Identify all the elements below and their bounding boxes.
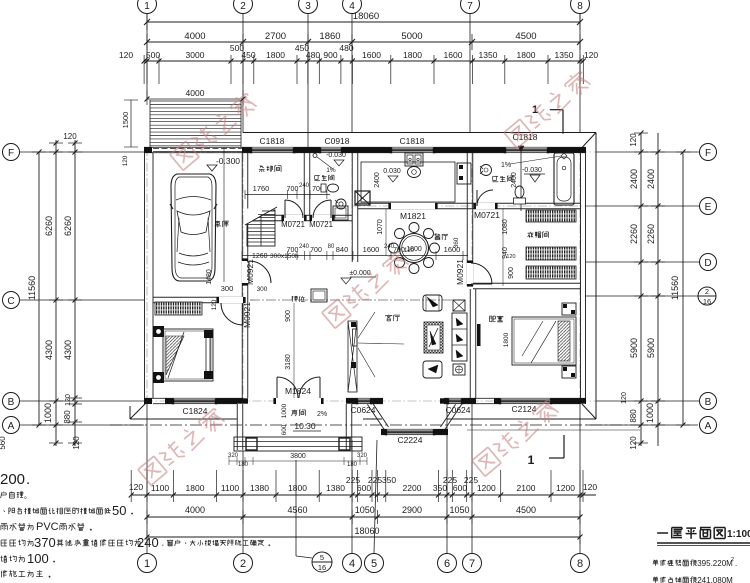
ramp dimension 1500	[130, 100, 132, 147]
svg-text:300x150h: 300x150h	[270, 253, 299, 260]
svg-text:5: 5	[371, 558, 377, 570]
svg-text:2400: 2400	[646, 169, 656, 189]
door opening M1824 entrance	[276, 398, 321, 404]
svg-text:M1821: M1821	[400, 211, 426, 221]
svg-text:120: 120	[129, 482, 143, 492]
cloakroom label	[529, 231, 532, 234]
svg-text:1200: 1200	[477, 483, 496, 493]
bath1 wash basin	[336, 199, 346, 209]
roof overhang top	[243, 132, 596, 134]
svg-text:16: 16	[318, 563, 326, 572]
svg-text:2400: 2400	[629, 169, 639, 189]
svg-text:1600: 1600	[362, 50, 381, 60]
svg-text:2260: 2260	[646, 224, 656, 244]
bottom dimension chain level 1 detailed	[131, 494, 596, 496]
grid line 1 top leader	[146, 14, 148, 100]
svg-text:900: 900	[285, 310, 292, 322]
svg-text:120: 120	[584, 50, 598, 60]
svg-text:100: 100	[27, 551, 49, 566]
grid line 4 top leader	[351, 14, 353, 133]
svg-text:8: 8	[577, 1, 583, 12]
notes line 3	[3, 510, 6, 512]
svg-text:700: 700	[287, 186, 299, 193]
notes line 5	[1, 539, 7, 541]
svg-text:2: 2	[705, 287, 709, 296]
svg-text:360: 360	[453, 237, 460, 248]
grid axis C section line right	[586, 295, 698, 297]
porch column left	[246, 438, 257, 450]
svg-text:5000: 5000	[401, 31, 422, 42]
svg-text:4500: 4500	[516, 505, 536, 515]
porch platform	[234, 437, 362, 451]
bath1 washing machine	[333, 206, 348, 220]
title: first floor plan	[657, 532, 668, 534]
door opening M0721 bath1	[312, 215, 332, 221]
cloakroom dims	[502, 209, 504, 286]
staircase	[247, 210, 275, 246]
roof overhang bottom left segment	[130, 418, 237, 420]
grid axis B line right	[596, 400, 699, 402]
svg-text:1380: 1380	[326, 483, 345, 493]
svg-text:120: 120	[119, 50, 133, 60]
svg-text:8: 8	[577, 558, 583, 570]
door opening M0921 bedroom1	[219, 297, 243, 303]
grid bubble D right	[700, 254, 717, 271]
bathtub	[554, 153, 574, 205]
window C1818 kitchen	[391, 147, 434, 153]
living coffee table	[424, 322, 443, 353]
grid axis C dash-dot through hall	[250, 299, 465, 301]
door opening M0921 hall-cloak	[467, 263, 473, 284]
TV cabinet	[348, 321, 357, 392]
interior wall cloakroom/bedroom2 top	[473, 282, 580, 284]
grid bubbles top (clipped)	[138, 0, 157, 14]
svg-text:M0721: M0721	[474, 210, 500, 220]
svg-text:700: 700	[310, 247, 322, 254]
grid bubble 6 bottom	[438, 554, 457, 573]
svg-text:120: 120	[583, 482, 597, 492]
svg-text:120: 120	[629, 436, 638, 450]
svg-text:120: 120	[629, 133, 638, 147]
exterior wall bottom faces (B) left	[144, 397, 243, 399]
grid bubble C left	[3, 292, 20, 309]
svg-text:180: 180	[238, 462, 249, 468]
exterior wall bottom faces (B) right	[444, 397, 586, 399]
door M0721 storage arc	[285, 200, 303, 218]
svg-text:6: 6	[444, 558, 450, 570]
svg-text:C1818: C1818	[259, 136, 284, 146]
cloakroom wardrobe strip 2	[526, 247, 576, 260]
svg-text:2900: 2900	[402, 505, 422, 515]
left dimension chain level 2	[55, 140, 57, 446]
svg-text:560: 560	[0, 436, 7, 450]
svg-text:1050: 1050	[449, 505, 469, 515]
section line 1 vertical	[520, 145, 522, 211]
svg-text:D: D	[704, 258, 711, 269]
area note 2 (clipped)	[653, 576, 656, 579]
notes line 2	[3, 491, 5, 494]
grid axis F line left	[20, 151, 144, 153]
svg-text:1800: 1800	[288, 483, 307, 493]
door M1824 entrance double arcs	[277, 377, 298, 398]
roof overhang corner bottom-left	[130, 403, 146, 419]
svg-text:240: 240	[384, 244, 395, 250]
svg-text:370: 370	[34, 535, 56, 550]
bath2 wash basin	[481, 165, 492, 176]
svg-text:300: 300	[257, 286, 268, 293]
grid bubble F right	[700, 144, 717, 161]
svg-text:2%: 2%	[317, 411, 327, 418]
living armchair top	[423, 295, 442, 311]
entrance porch side walls	[236, 404, 238, 450]
svg-text:240: 240	[137, 535, 159, 550]
bath1 room label	[315, 175, 320, 177]
corridor dim chain 1760-700-240-700	[245, 194, 330, 196]
grid axis C line left	[20, 299, 144, 301]
svg-text:1%: 1%	[326, 167, 336, 174]
svg-text:320: 320	[357, 453, 368, 459]
cloakroom wardrobe strip 1	[526, 210, 576, 222]
roof overhang bottom right segment	[447, 418, 596, 420]
storage room label	[260, 165, 263, 168]
svg-text:4000: 4000	[186, 88, 205, 98]
bed2 pillow hatch	[558, 321, 570, 361]
dining room label	[435, 233, 437, 235]
window C0624 bedroom2-left	[448, 398, 462, 404]
right dimension chain level 1	[640, 133, 642, 446]
svg-text:5: 5	[320, 553, 324, 562]
area note 1	[653, 559, 656, 562]
svg-text:840: 840	[336, 245, 349, 254]
garage door dimension 4000	[147, 98, 243, 100]
bedroom1 wardrobe	[155, 302, 202, 315]
svg-text:120: 120	[65, 394, 72, 406]
svg-text:-0.030: -0.030	[522, 167, 542, 174]
window C0624 hall-south	[357, 398, 371, 404]
interior wall garage right (axis 2)	[241, 153, 243, 398]
svg-text:C: C	[7, 296, 14, 307]
grid line 7 bottom leader	[471, 404, 473, 553]
svg-text:1800: 1800	[403, 50, 422, 60]
svg-text::395.220M: :395.220M	[695, 559, 733, 568]
svg-text:500: 500	[146, 50, 160, 60]
living room label	[388, 314, 390, 317]
interior wall kitchen-bath2 bottom (E)	[358, 202, 580, 204]
svg-text:240: 240	[299, 244, 310, 250]
hall room label 房间	[293, 409, 295, 412]
shrine altar	[311, 289, 327, 302]
dining table	[400, 234, 429, 263]
dining chairs	[430, 243, 440, 253]
left dimension chain level 3	[74, 140, 76, 446]
grid line 2 top leader	[242, 14, 244, 133]
svg-text:-0.030: -0.030	[326, 152, 346, 159]
exterior wall left faces	[144, 147, 146, 404]
svg-text:2260: 2260	[629, 224, 639, 244]
svg-text:120: 120	[211, 299, 218, 310]
svg-text:320: 320	[228, 453, 239, 459]
svg-text:1200: 1200	[556, 483, 575, 493]
corridor dim chain lower	[242, 255, 468, 257]
living armchair bottom	[423, 361, 442, 378]
svg-text:C0918: C0918	[324, 136, 349, 146]
notes line 6	[1, 556, 3, 562]
svg-text:6260: 6260	[63, 216, 73, 236]
svg-text:M0921: M0921	[455, 259, 465, 285]
svg-text:880: 880	[63, 410, 72, 424]
stair break line	[245, 207, 277, 225]
grid line 5 bottom leader	[374, 440, 377, 553]
bed1 headboard	[204, 330, 213, 338]
svg-text:C2224: C2224	[397, 435, 422, 445]
svg-text:C1824: C1824	[182, 406, 207, 416]
door opening M1821 kitchen-dining	[391, 203, 435, 209]
svg-text:7: 7	[467, 1, 473, 12]
grid axis B line left	[20, 400, 144, 402]
svg-text:1:100: 1:100	[727, 529, 750, 540]
svg-text:1260: 1260	[252, 253, 268, 260]
garage ramp hatch	[149, 100, 151, 147]
bedroom2 bed	[512, 317, 576, 365]
svg-text:1050: 1050	[355, 505, 375, 515]
grid line 1 bottom leader	[146, 404, 148, 553]
door M0921 garage-hall arc	[249, 261, 271, 283]
window C2224 bay	[386, 429, 434, 435]
bay window splay walls	[367, 403, 385, 430]
living side table round	[453, 364, 465, 375]
kitchen fridge	[457, 163, 471, 184]
bottom wall piers (black)	[144, 398, 152, 404]
svg-text:1350: 1350	[479, 50, 498, 60]
svg-text:120: 120	[63, 132, 77, 141]
window C2124 bedroom2	[500, 398, 551, 404]
roof overhang corner top-right	[582, 133, 596, 148]
bedroom1 nightstand bottom	[153, 372, 164, 383]
svg-text:300: 300	[221, 284, 234, 293]
svg-text:1600: 1600	[363, 245, 380, 254]
TV sight lines	[358, 312, 375, 338]
section mark 5/16 bottom	[295, 460, 297, 556]
svg-text:2700: 2700	[265, 31, 286, 42]
svg-text:80: 80	[328, 244, 335, 250]
svg-text:6260: 6260	[44, 216, 54, 236]
svg-text:7: 7	[469, 558, 475, 570]
svg-text:1480: 1480	[206, 269, 213, 285]
roof overhang right	[595, 133, 597, 420]
svg-text:A: A	[705, 421, 712, 432]
grid bubble 4 bottom	[343, 554, 362, 573]
interior wall bedroom2 left	[469, 289, 471, 398]
grid bubble A left	[3, 417, 20, 434]
svg-text:1: 1	[144, 558, 150, 570]
svg-text:5900: 5900	[629, 338, 639, 358]
svg-text:600: 600	[281, 424, 288, 435]
svg-text:4: 4	[349, 1, 355, 12]
svg-text:4300: 4300	[63, 340, 73, 360]
svg-text:5900: 5900	[646, 338, 656, 358]
interior wall kitchen left (axis 4)	[351, 153, 353, 262]
window C1818 bath2	[505, 147, 548, 153]
garage room label	[215, 220, 220, 222]
svg-text:4000: 4000	[184, 31, 205, 42]
grid bubble 7 bottom	[463, 554, 482, 573]
grid line 7 top leader	[469, 14, 471, 133]
porch column right	[339, 438, 350, 450]
interior wall storage/bath divider	[303, 153, 305, 215]
window C1824 bedroom1	[173, 398, 216, 404]
svg-text:1800: 1800	[266, 50, 285, 60]
svg-text:16: 16	[703, 297, 711, 306]
window C0918 bath1	[320, 147, 342, 153]
door M0921 bedroom1 arc	[221, 303, 243, 325]
svg-text:4300: 4300	[44, 340, 54, 360]
window C1818 storage	[251, 147, 294, 153]
bath2 floor drain	[561, 153, 567, 159]
grid axis D line right	[586, 261, 699, 263]
svg-text:1380: 1380	[250, 483, 269, 493]
grid axis A line left	[20, 424, 144, 426]
bedroom1 bed	[163, 329, 213, 381]
roof overhang corner bottom-right	[582, 404, 596, 419]
grid axis F line right	[596, 151, 699, 153]
right dimension chain total 11560	[682, 152, 684, 425]
svg-text:3800: 3800	[290, 453, 306, 460]
apron line bottom right	[467, 429, 640, 431]
svg-text:18060: 18060	[354, 526, 379, 536]
grid bubble 5 bottom	[365, 554, 384, 573]
svg-text:.: .	[26, 471, 30, 488]
car in garage	[170, 174, 217, 281]
bed1 pillows hatch	[166, 336, 184, 375]
notes line 4	[1, 523, 7, 525]
grid axis A dash-dot across plan	[110, 424, 640, 426]
svg-text:2400: 2400	[511, 172, 518, 188]
svg-text:880: 880	[629, 409, 638, 423]
svg-text:C0624: C0624	[445, 405, 470, 415]
svg-text:225: 225	[368, 475, 382, 485]
living side table with X	[453, 300, 465, 311]
svg-text:1100: 1100	[151, 483, 170, 493]
grid axis A line right	[586, 424, 698, 426]
svg-text:200: 200	[0, 471, 25, 488]
interior wall bedroom1 top (C)	[153, 296, 243, 298]
watermark center	[321, 249, 410, 329]
svg-text:2: 2	[240, 558, 246, 570]
svg-text:1000: 1000	[281, 403, 288, 418]
bath2 toilet	[515, 186, 524, 198]
svg-text:1100: 1100	[221, 483, 240, 493]
svg-text:1760: 1760	[253, 184, 270, 193]
door opening M0921 garage-hall	[242, 261, 248, 283]
svg-text:3000: 3000	[186, 50, 205, 60]
grid bubble 2 bottom	[234, 554, 253, 573]
svg-text:240: 240	[299, 183, 310, 189]
grid line 4 bottom leader	[351, 440, 353, 553]
bed2 nightstand top	[562, 303, 576, 315]
section mark 2/16 right	[698, 287, 716, 305]
svg-text:350: 350	[382, 475, 396, 485]
bed2 nightstand bottom	[562, 366, 576, 378]
svg-text:1: 1	[528, 453, 535, 467]
notes line 7	[0, 571, 3, 573]
svg-text:1500: 1500	[121, 112, 130, 129]
top dimension chain level 3 detailed	[144, 60, 584, 62]
svg-text:2: 2	[731, 557, 734, 563]
svg-text:120: 120	[404, 248, 415, 254]
svg-text:1000: 1000	[43, 403, 53, 423]
svg-text:4560: 4560	[287, 505, 307, 515]
svg-text:4000: 4000	[185, 505, 205, 515]
svg-text:C1818: C1818	[399, 136, 424, 146]
svg-text:120: 120	[72, 436, 81, 450]
svg-text:11560: 11560	[27, 276, 37, 300]
grid bubble A right	[700, 417, 717, 434]
bedroom2 label	[489, 316, 491, 322]
svg-text:450: 450	[241, 50, 255, 60]
svg-text:A: A	[8, 421, 15, 432]
top wall piers (black)	[144, 147, 152, 153]
interior wall storage bottom	[248, 214, 352, 216]
svg-text:0.030: 0.030	[383, 168, 401, 175]
bath1 toilet	[321, 184, 326, 192]
svg-text:1600: 1600	[444, 50, 463, 60]
svg-text:480: 480	[306, 50, 320, 60]
kitchen sink	[408, 167, 421, 178]
svg-text:1800: 1800	[503, 332, 510, 347]
svg-text:1860: 1860	[319, 31, 340, 42]
grid line 3 top leader	[307, 14, 309, 147]
bedroom1 nightstand top	[153, 326, 164, 337]
svg-text:1800: 1800	[186, 483, 205, 493]
svg-text:2400: 2400	[374, 172, 381, 188]
watermark top-left	[169, 91, 258, 171]
top dimension chain total 18060	[147, 21, 580, 23]
svg-text:B: B	[8, 397, 15, 408]
svg-text:F: F	[8, 148, 14, 159]
grid line 8 top leader	[579, 14, 581, 133]
svg-text:±0.000: ±0.000	[349, 270, 370, 277]
door opening M0721 storage	[284, 215, 304, 221]
grid bubble 8 bottom	[571, 554, 590, 573]
svg-text:120: 120	[506, 254, 515, 260]
svg-text:M0721: M0721	[309, 220, 333, 229]
svg-text:900: 900	[323, 50, 337, 60]
grid bubble F left	[3, 144, 20, 161]
svg-text:1350: 1350	[555, 50, 574, 60]
svg-text:M0921: M0921	[245, 259, 255, 285]
grid axis E line right	[586, 205, 699, 207]
svg-text:120: 120	[122, 155, 129, 166]
grid line 8 bottom leader	[579, 404, 581, 553]
grid bubble E right	[700, 198, 717, 215]
right dimension chain level 2	[657, 133, 659, 446]
cloakroom wardrobe strip 3	[526, 266, 576, 279]
svg-text:1800: 1800	[517, 50, 536, 60]
door M0721 bath2 arc	[477, 190, 493, 206]
svg-text:700: 700	[287, 247, 299, 254]
svg-text:480: 480	[339, 43, 353, 53]
kitchen stove	[405, 153, 423, 166]
svg-text:F: F	[705, 148, 711, 159]
svg-text:E: E	[705, 202, 712, 213]
svg-text:900: 900	[508, 267, 515, 279]
top dimension chain level 2: 4000 2700 1860 5000 4500	[147, 41, 580, 43]
svg-text:。: 。	[24, 493, 31, 500]
watermark top-right	[503, 69, 592, 149]
svg-text:4500: 4500	[515, 31, 536, 42]
shrine label	[292, 296, 294, 302]
svg-text:PVC: PVC	[36, 521, 59, 533]
